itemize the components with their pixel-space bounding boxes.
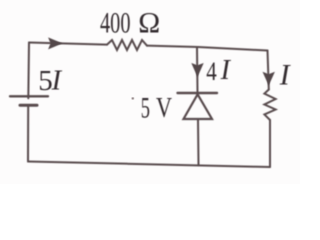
battery B1 plus plate bbox=[10, 95, 48, 97]
battery B1 minus plate bbox=[20, 104, 37, 107]
resistor R right zigzag bbox=[264, 90, 275, 121]
svg-text:V: V bbox=[156, 92, 172, 124]
diode D1 cathode bar bbox=[178, 92, 218, 94]
wire left lead of resistor 400ohm bbox=[29, 43, 107, 45]
svg-text:Ω: Ω bbox=[138, 8, 160, 40]
resistor 400ohm zigzag bbox=[107, 40, 147, 50]
wire right side lower bbox=[269, 120, 271, 167]
svg-text:I: I bbox=[279, 59, 291, 91]
wire middle branch lower bbox=[197, 119, 200, 165]
wire right side upper bbox=[268, 51, 269, 90]
svg-text:I: I bbox=[51, 65, 63, 96]
svg-text:I: I bbox=[220, 55, 232, 86]
speck artifact bbox=[132, 97, 134, 99]
arrow current direction top bbox=[48, 37, 62, 49]
arrow current I down bbox=[263, 72, 275, 86]
wire left bottom bbox=[27, 105, 29, 161]
svg-text:4: 4 bbox=[206, 56, 217, 86]
svg-text:5: 5 bbox=[38, 65, 53, 97]
svg-text:400: 400 bbox=[100, 8, 131, 40]
wire bottom bbox=[28, 162, 270, 168]
wire right lead of resistor 400ohm bbox=[147, 46, 268, 51]
diode D1 triangle bbox=[184, 94, 213, 119]
arrow current 4I down bbox=[191, 63, 203, 77]
wire middle branch upper bbox=[196, 48, 199, 93]
svg-text:5: 5 bbox=[141, 92, 150, 124]
wire left top bbox=[27, 43, 30, 99]
